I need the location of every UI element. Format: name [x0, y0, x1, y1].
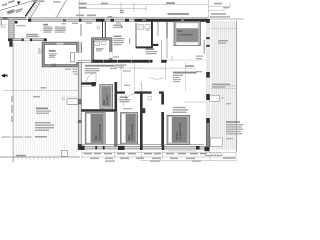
bed 2 vertical — [100, 85, 113, 109]
dimension rows right part — [82, 151, 236, 161]
texts above left wall — [43, 24, 48, 26]
thin line y 102 right part — [184, 101, 206, 103]
embankment line P2 — [57, 0, 67, 17]
vertical wall x~141 — [140, 91, 143, 146]
tiny text top of site — [32, 0, 44, 2]
solid piers — [28, 19, 208, 22]
dark block attached — [140, 108, 145, 113]
stair rungs between — [26, 2, 39, 18]
hatch right bottom — [210, 152, 222, 155]
fixtures — [95, 41, 100, 45]
Fussboden text — [115, 64, 127, 65]
wall stub — [82, 82, 97, 84]
left small dim text column top — [1, 20, 2, 26]
dark diagonal retaining wall — [25, 0, 36, 16]
Frischbetondecke label — [85, 65, 115, 67]
level texts +0.00 = 470.75 — [26, 34, 38, 35]
vertical wall x~162.5 — [161, 94, 164, 147]
main left vertical line — [12, 43, 14, 163]
rotated text 4.50 lange — [15, 8, 23, 13]
vertical path going south (stairs) — [9, 20, 14, 41]
embankment ticks — [56, 2, 66, 17]
note line bottom left — [1, 136, 10, 137]
north arrow blob — [1, 74, 5, 78]
door arc from hall — [149, 77, 165, 79]
rotated label Grundstuecksgrenze — [2, 0, 16, 6]
right terrace — [211, 21, 237, 150]
property boundary line — [0, 0, 35, 10]
window band (light) — [30, 19, 135, 21]
Terrasse label — [36, 108, 48, 110]
bed 1 — [174, 21, 200, 45]
small door circle — [148, 97, 152, 101]
right wall of middle bedroom — [115, 82, 118, 112]
svg-text:(2 personen): (2 personen) — [130, 124, 134, 140]
dim line — [120, 67, 196, 69]
right bottom text block — [226, 121, 240, 123]
Bett2 text block — [146, 49, 155, 51]
rotated dim text column left — [11, 96, 13, 102]
Bad2 room — [92, 38, 113, 63]
small rotated label box on boundary — [7, 9, 15, 14]
heater — [71, 53, 75, 63]
door swing arc in left wall — [24, 41, 30, 47]
Bad2 text block — [114, 36, 122, 38]
bottom wall of middle bedroom — [82, 109, 118, 112]
north triangle — [17, 2, 21, 5]
sauna texts — [49, 50, 56, 52]
door arc lower-left of hall — [87, 73, 97, 83]
svg-text:Bett: Bett — [178, 29, 183, 33]
svg-text:(2 personen): (2 personen) — [97, 124, 101, 140]
small rect at terrace/building corner — [62, 151, 68, 157]
small tick below top wall — [97, 26, 99, 29]
Bett3 text block — [120, 97, 128, 99]
svg-text:(2 personen): (2 personen) — [178, 33, 193, 37]
basin on terrace side — [67, 99, 78, 105]
label above top wall — [168, 13, 190, 15]
horizontal wall y~92 — [117, 91, 126, 93]
faint diagonals on upper plot — [33, 2, 54, 19]
svg-text:(2 pers): (2 pers) — [105, 95, 109, 104]
Kumstloesch text block — [173, 72, 197, 74]
vertical dim texts left of right wall — [196, 56, 203, 57]
bed C sofa — [167, 115, 190, 144]
dimension line across terrace — [3, 89, 78, 91]
tick — [62, 98, 64, 100]
hatch dashes lower left of path — [1, 25, 7, 28]
text rows lower — [35, 122, 51, 123]
parallel ramp line — [30, 0, 42, 20]
right terrace edge line — [236, 21, 238, 152]
left vertical wall stub — [9, 39, 12, 47]
chimney stub — [102, 22, 104, 38]
bed B — [121, 113, 138, 144]
stones near bottom — [52, 64, 57, 67]
bed A — [85, 113, 105, 144]
svg-text:(2 personen): (2 personen) — [178, 123, 182, 139]
dim marks right of sauna — [81, 44, 82, 53]
left horizontal wall band — [10, 39, 47, 41]
door opening gap in band A — [153, 59, 162, 63]
door arc — [126, 94, 135, 103]
70/4 text rows in sofa room — [173, 107, 186, 108]
black box at path corner — [15, 21, 18, 24]
horizontal access path — [0, 17, 27, 19]
wall between A and B — [115, 112, 118, 147]
